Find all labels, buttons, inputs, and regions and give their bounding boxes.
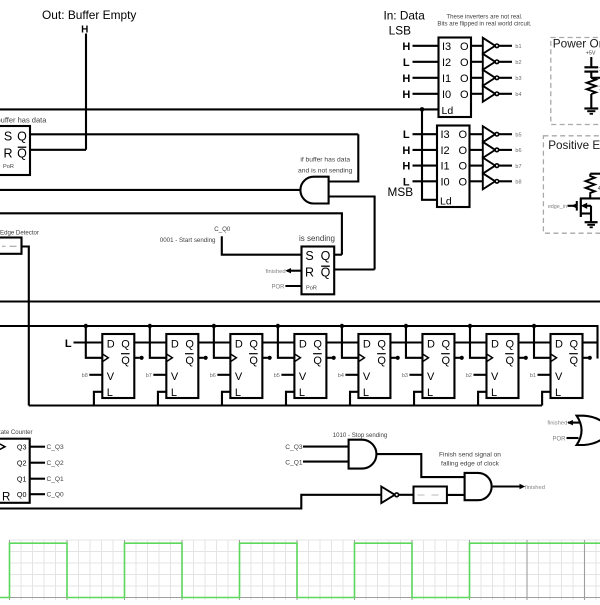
svg-text:Q: Q — [185, 355, 194, 367]
svg-text:Power On Reset: Power On Reset — [553, 37, 600, 51]
svg-text:state Counter: state Counter — [0, 429, 33, 436]
OR gate G5 — [577, 416, 600, 445]
svg-text:O: O — [459, 161, 468, 173]
wire right-edge riser — [596, 325, 598, 359]
D flip-flop FF3 — [230, 334, 262, 399]
wire b4 to FF5.V — [345, 374, 358, 376]
svg-text:falling edge of clock: falling edge of clock — [441, 460, 500, 467]
wire clock to FF2 — [150, 326, 167, 358]
wire FF5.Qbar stub — [390, 357, 396, 359]
junction clock tap FF4 — [276, 324, 280, 328]
wire FF1.Q to FF2.D — [134, 341, 166, 343]
subcircuit box Positive Edge Detector — [543, 136, 600, 233]
svg-text:V: V — [299, 371, 307, 383]
wire serial data bus line — [0, 300, 600, 302]
junction clock tap FF2 — [148, 324, 152, 328]
svg-text:Q1: Q1 — [17, 474, 27, 483]
svg-text:+5V: +5V — [586, 51, 596, 57]
flip-flop U2 is sending (SR latch) — [302, 247, 335, 295]
resistor R1 — [587, 78, 596, 94]
svg-text:Bits are flipped in real world: Bits are flipped in real world circuit. — [437, 21, 531, 28]
ground GND2 — [585, 221, 598, 223]
wire FF3.Q to FF4.D — [262, 341, 294, 343]
svg-text:O: O — [460, 89, 469, 101]
svg-text:b8: b8 — [515, 180, 521, 186]
subcircuit U5 Edge Detector — [0, 238, 22, 254]
svg-text:L: L — [171, 387, 177, 399]
svg-text:Q: Q — [17, 147, 27, 161]
svg-text:Edge Detector: Edge Detector — [0, 230, 39, 237]
svg-text:O: O — [460, 41, 469, 53]
D flip-flop FF7 — [486, 334, 518, 399]
svg-text:1010 - Stop sending: 1010 - Stop sending — [333, 432, 388, 439]
wire b7 to FF2.V — [153, 374, 166, 376]
svg-text:C_Q2: C_Q2 — [47, 460, 65, 467]
svg-text:C_Q1: C_Q1 — [47, 476, 65, 483]
wire FF6.Q to FF7.D — [454, 341, 486, 343]
svg-text:POR: POR — [271, 285, 285, 291]
svg-text:V: V — [171, 371, 179, 383]
svg-text:R: R — [305, 266, 314, 280]
wire U1.Q to AND riser — [30, 133, 358, 135]
wire R2 to drain node — [589, 195, 591, 199]
svg-text:L: L — [107, 387, 113, 399]
wire FF3.L to load rail — [222, 392, 230, 406]
wire counter Q0 output — [30, 493, 45, 495]
svg-text:and is not sending: and is not sending — [298, 168, 353, 175]
svg-text:H: H — [402, 145, 410, 157]
svg-text:D: D — [491, 339, 499, 351]
svg-text:D: D — [363, 339, 371, 351]
svg-text:b2: b2 — [515, 60, 521, 66]
svg-text:L: L — [363, 387, 369, 399]
svg-text:Out: Buffer Empty: Out: Buffer Empty — [42, 8, 136, 22]
clock waveform — [0, 543, 600, 597]
junction clock tap FF5 — [340, 324, 344, 328]
svg-text:V: V — [555, 371, 563, 383]
wire R1 to ground — [590, 94, 592, 108]
svg-text:Q: Q — [441, 355, 450, 367]
junction clock tap FF7 — [468, 324, 472, 328]
wire R2 top to right edge — [590, 173, 600, 175]
wire counter Q1 output — [30, 478, 45, 480]
wire FF5.L to load rail — [350, 392, 358, 406]
svg-text:D: D — [171, 339, 179, 351]
svg-text:finished: finished — [547, 421, 567, 427]
register U3 LSB input register — [402, 38, 521, 118]
svg-text:V: V — [427, 371, 435, 383]
svg-text:finished: finished — [525, 485, 545, 491]
inverter G4 — [381, 487, 395, 504]
wire clock to FF1 — [86, 326, 103, 358]
svg-text:edge_in: edge_in — [548, 204, 567, 210]
svg-text:Q: Q — [249, 355, 258, 367]
svg-text:Q: Q — [505, 339, 514, 351]
wire FF4.Qbar stub — [326, 357, 332, 359]
svg-text:PoR: PoR — [306, 286, 317, 292]
svg-text:Q: Q — [185, 339, 194, 351]
resistor R2 — [586, 174, 595, 195]
wire Ld line (load bus) — [0, 108, 439, 110]
flip-flop U1 buffer has data (SR latch) — [0, 126, 30, 175]
subcircuit U7 delay — [414, 487, 447, 504]
svg-text:Q: Q — [121, 339, 130, 351]
wire POR to G5 — [567, 437, 579, 439]
svg-text:H: H — [402, 89, 410, 101]
AND gate G3 finish — [465, 473, 492, 500]
wire b6 to FF3.V — [217, 374, 230, 376]
wire b2 to FF7.V — [473, 374, 486, 376]
svg-text:O: O — [460, 57, 469, 69]
svg-text:I1: I1 — [441, 161, 450, 173]
wire b3 to FF6.V — [409, 374, 422, 376]
wire FF7.Qbar stub — [518, 357, 524, 359]
wire counter Q3 output — [30, 446, 45, 448]
wire FF4.Q to FF5.D — [326, 341, 358, 343]
wire FF2.Qbar stub — [198, 357, 204, 359]
svg-text:b8: b8 — [82, 373, 88, 379]
svg-text:b7: b7 — [146, 373, 152, 379]
wire +5V to C1 — [590, 57, 592, 67]
D flip-flop FF2 — [166, 334, 198, 399]
scope grid — [10, 540, 600, 600]
svg-text:C_Q3: C_Q3 — [47, 444, 65, 451]
wire clock to FF5 — [342, 326, 359, 358]
D flip-flop FF1 — [102, 334, 134, 399]
wire FF7.Q to FF8.D — [518, 341, 550, 343]
wire is-sending Q feedback line — [0, 213, 342, 254]
wire C1 to R1, node stub — [590, 72, 592, 78]
svg-text:D: D — [555, 339, 563, 351]
svg-text:b5: b5 — [515, 132, 521, 138]
svg-text:b4: b4 — [515, 92, 521, 98]
svg-text:b3: b3 — [515, 76, 521, 82]
wire G2 output to G3 top input — [376, 454, 465, 477]
wire clock to FF8 — [534, 326, 551, 358]
svg-text:D: D — [427, 339, 435, 351]
svg-text:Q: Q — [377, 339, 386, 351]
svg-text:D: D — [299, 339, 307, 351]
wire FF2.Q to FF3.D — [198, 341, 230, 343]
svg-text:I3: I3 — [442, 41, 451, 53]
svg-text:Finish send signal on: Finish send signal on — [439, 451, 501, 458]
scope major gridlines — [10, 540, 600, 600]
svg-text:H: H — [81, 25, 88, 36]
wire drain node to right edge — [580, 197, 600, 199]
capacitor C1 — [584, 66, 598, 68]
svg-text:S: S — [305, 249, 313, 263]
svg-text:R: R — [2, 492, 10, 504]
wire U1.Qbar to H node — [30, 149, 86, 151]
svg-text:Q: Q — [313, 355, 322, 367]
D flip-flop FF5 — [358, 334, 390, 399]
junction Ld split — [420, 107, 425, 112]
wire FF8.L to load rail — [542, 392, 550, 406]
svg-text:0001 - Start sending: 0001 - Start sending — [160, 237, 216, 244]
junction clock tap FF3 — [212, 324, 216, 328]
svg-text:Q: Q — [321, 266, 331, 280]
wire G1 bottom input from is-sending Qbar — [329, 197, 375, 270]
svg-text:Q3: Q3 — [17, 442, 27, 451]
svg-text:L: L — [555, 387, 561, 399]
AND gate G1 (left-facing) — [300, 177, 328, 204]
wire C_Q3 to G2 — [303, 446, 349, 448]
svg-text:V: V — [363, 371, 371, 383]
D flip-flop FF6 — [422, 334, 454, 399]
ground GND1 — [584, 107, 598, 109]
svg-text:Q: Q — [321, 249, 331, 263]
D flip-flop FF8 — [551, 334, 583, 399]
svg-text:b1: b1 — [515, 44, 521, 50]
wire b1 to FF8.V — [538, 374, 551, 376]
svg-text:L: L — [299, 387, 305, 399]
svg-text:b5: b5 — [274, 373, 280, 379]
svg-text:H: H — [402, 161, 410, 173]
wire FF4.L to load rail — [286, 392, 294, 406]
wire clock to FF6 — [406, 326, 423, 358]
junction clock tap FF1 — [84, 324, 88, 328]
transistor Q1 NMOS — [568, 198, 592, 222]
wire load rail — [29, 404, 542, 406]
svg-text:I2: I2 — [441, 145, 450, 157]
svg-text:L: L — [403, 176, 410, 188]
wire FF3.Qbar stub — [262, 357, 268, 359]
svg-text:V: V — [491, 371, 499, 383]
svg-text:L: L — [403, 129, 410, 141]
wire U2.Qbar to G1 — [334, 268, 374, 270]
wire FF2.L to load rail — [158, 392, 166, 406]
svg-text:These inverters are not real.: These inverters are not real. — [446, 13, 523, 20]
wire G3 output — [493, 485, 521, 487]
svg-text:if buffer has data: if buffer has data — [300, 156, 350, 163]
wire FF8.Qbar stub — [583, 357, 589, 359]
AND gate G2 stop sending — [349, 440, 377, 469]
svg-text:b3: b3 — [402, 373, 408, 379]
svg-text:POR: POR — [552, 436, 566, 442]
wire Ld drop to MSB register — [422, 109, 437, 199]
svg-text:I0: I0 — [441, 176, 450, 188]
svg-text:Q: Q — [249, 339, 258, 351]
register U4 MSB input register — [402, 126, 521, 208]
svg-text:I1: I1 — [442, 73, 451, 85]
wire finished to R input — [287, 270, 302, 272]
counter U6 state counter — [0, 439, 30, 504]
svg-text:Q0: Q0 — [17, 490, 27, 499]
svg-text:L: L — [235, 387, 241, 399]
wire FF6.Qbar stub — [454, 357, 460, 359]
svg-text:Q: Q — [441, 339, 450, 351]
svg-text:b6: b6 — [210, 373, 216, 379]
wire C_Q1 to G2 — [303, 461, 349, 463]
svg-text:R: R — [3, 147, 12, 161]
svg-text:b2: b2 — [466, 373, 472, 379]
svg-text:Q: Q — [121, 355, 130, 367]
svg-text:O: O — [460, 73, 469, 85]
wire G1 output to left edge — [0, 189, 300, 191]
svg-text:L: L — [65, 338, 72, 350]
wire FF7.L to load rail — [478, 392, 486, 406]
wire POR to PoR input — [285, 285, 301, 287]
wire delay to G3 — [447, 494, 465, 496]
wire FF6.L to load rail — [414, 392, 422, 406]
svg-text:C_Q0: C_Q0 — [214, 226, 231, 233]
svg-text:Q: Q — [570, 339, 579, 351]
svg-text:O: O — [459, 129, 468, 141]
wire clock to FF3 — [214, 326, 231, 358]
junction clock tap FF8 — [532, 324, 536, 328]
svg-text:b6: b6 — [515, 148, 521, 154]
svg-text:buffer has data: buffer has data — [0, 116, 47, 125]
svg-text:finished: finished — [266, 269, 286, 275]
svg-text:D: D — [235, 339, 243, 351]
svg-text:I0: I0 — [442, 89, 451, 101]
wire FF5.Q to FF6.D — [390, 341, 422, 343]
svg-text:LSB: LSB — [389, 23, 411, 37]
svg-text:C_Q1: C_Q1 — [285, 460, 303, 467]
wire POR rail to inverter — [0, 495, 381, 509]
wire G4 to delay box — [399, 494, 414, 496]
wire L to DFF1.D — [74, 341, 103, 343]
wire edge detector output to load rail — [22, 247, 29, 406]
svg-text:O: O — [459, 176, 468, 188]
wire clock to FF4 — [278, 326, 295, 358]
wire FF8.Q to right edge — [583, 341, 598, 343]
wire b8 to FF1.V — [89, 374, 102, 376]
svg-text:Q: Q — [17, 130, 27, 144]
wire G1 top input from U1.Q — [329, 134, 359, 181]
wire U2.Q up to feedback line — [334, 254, 342, 256]
wire b5 to FF4.V — [281, 374, 294, 376]
svg-text:L: L — [427, 387, 433, 399]
wire clock to FF7 — [470, 326, 487, 358]
svg-text:S: S — [4, 130, 12, 144]
svg-text:b4: b4 — [338, 373, 344, 379]
svg-text:In: Data: In: Data — [383, 9, 425, 23]
svg-text:b1: b1 — [530, 373, 536, 379]
svg-text:L: L — [403, 57, 410, 69]
wire counter Q2 output — [30, 462, 45, 464]
svg-text:Q2: Q2 — [17, 458, 27, 467]
svg-text:C_Q0: C_Q0 — [47, 492, 65, 499]
svg-text:V: V — [235, 371, 243, 383]
wire FF1.L to load rail — [94, 392, 102, 406]
wire FF1.Qbar stub — [134, 357, 140, 359]
svg-text:L: L — [491, 387, 497, 399]
svg-text:O: O — [459, 145, 468, 157]
wire H to Qbar of buffer-has-data — [85, 34, 87, 150]
svg-text:D: D — [107, 339, 115, 351]
svg-text:C_Q3: C_Q3 — [285, 444, 303, 451]
svg-text:Positive Edge Detector: Positive Edge Detector — [548, 139, 600, 152]
svg-text:V: V — [107, 371, 115, 383]
svg-text:PoR: PoR — [3, 164, 14, 170]
svg-text:b7: b7 — [515, 164, 521, 170]
wire C_Q0 to S input — [222, 236, 302, 254]
wire finished to G5 — [568, 422, 580, 424]
svg-text:Ld: Ld — [440, 196, 452, 208]
D flip-flop FF4 — [294, 334, 326, 399]
svg-text:Q: Q — [505, 355, 514, 367]
svg-text:H: H — [402, 73, 410, 85]
svg-text:Q: Q — [313, 339, 322, 351]
svg-text:I3: I3 — [441, 129, 450, 141]
svg-text:I2: I2 — [442, 57, 451, 69]
junction clock tap FF6 — [404, 324, 408, 328]
svg-text:Q: Q — [570, 355, 579, 367]
svg-text:is sending: is sending — [299, 234, 335, 243]
svg-text:Ld: Ld — [442, 105, 454, 117]
subcircuit box Power On Reset — [551, 38, 600, 125]
wire clock distribution line — [0, 325, 598, 327]
svg-text:H: H — [402, 41, 410, 53]
svg-text:Q: Q — [377, 355, 386, 367]
